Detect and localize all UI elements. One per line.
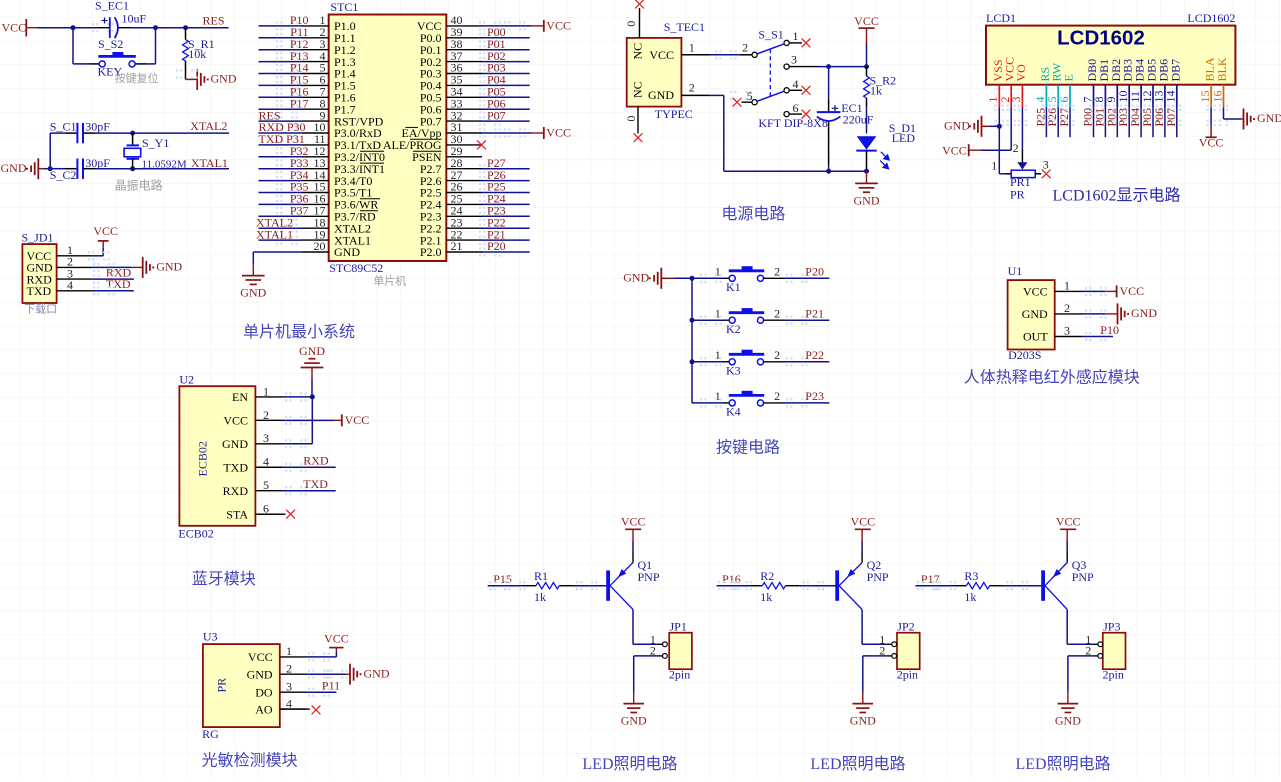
no connect X (TEC top)	[635, 0, 644, 8]
capacitor S_EC1 10uF	[95, 0, 147, 38]
svg-text:S_TEC1: S_TEC1	[664, 20, 705, 34]
svg-text:AO: AO	[255, 702, 273, 716]
IC STC1 pin 26 P2.5	[420, 180, 482, 200]
svg-text:P10: P10	[1100, 323, 1119, 337]
wire STC1 pin 5	[259, 69, 303, 78]
junction	[826, 169, 831, 174]
wire JD1 pin2 to GND	[92, 263, 143, 272]
power port GND (U2 top)	[299, 344, 325, 397]
svg-text:STC1: STC1	[330, 0, 358, 14]
power port VCC (BLA)	[1199, 135, 1224, 149]
svg-text:KFT DIP-8X8: KFT DIP-8X8	[758, 116, 827, 130]
svg-text:VCC: VCC	[324, 632, 349, 646]
IC LCD1 pin 15 BLA	[1198, 57, 1217, 126]
IC STC1 pin 21 P2.0	[420, 239, 482, 259]
svg-text:2: 2	[286, 661, 292, 675]
wire U3 pin3 / net label P11	[306, 679, 340, 697]
module U3 pin 2 GND	[247, 661, 306, 681]
svg-text:P07: P07	[487, 108, 506, 122]
wire U2 pin2 to VCC	[282, 416, 342, 425]
IC LCD1 pin 8 DB1	[1092, 59, 1111, 126]
svg-text:RXD: RXD	[303, 454, 329, 468]
svg-text:TYPEC: TYPEC	[655, 107, 693, 121]
svg-text:P20: P20	[487, 239, 506, 253]
svg-text:LED照明电路: LED照明电路	[810, 755, 905, 773]
svg-text:1: 1	[715, 265, 721, 279]
wire Q1 emitter to VCC	[632, 529, 634, 562]
svg-text:VCC: VCC	[942, 143, 967, 157]
wire LCD pin 12 / net label P05	[1140, 107, 1154, 137]
IC STC1 pin 14 P3.4/T0	[302, 168, 372, 188]
wire LCD pin 14 / net label P07	[1164, 107, 1178, 137]
power port VCC (power circuit)	[854, 14, 879, 43]
svg-text:2: 2	[774, 389, 780, 403]
wire LCD pin 6 / net label P27	[1057, 107, 1071, 137]
wire LCD pin 5 / net label P26	[1045, 107, 1059, 137]
svg-text:GND: GND	[156, 260, 182, 274]
wire VCC to S_EC1	[38, 23, 114, 32]
wire STC1 pin 13	[259, 164, 303, 173]
IC STC1 pin 23 P2.2	[420, 215, 482, 235]
svg-text:LCD1602: LCD1602	[1187, 11, 1235, 25]
IC LCD1 pin 4 RS	[1033, 67, 1052, 126]
svg-text:2pin: 2pin	[897, 667, 918, 681]
svg-text:4: 4	[286, 696, 292, 710]
S_TEC1 pin 2 GND	[681, 81, 709, 96]
svg-text:2: 2	[742, 41, 748, 55]
svg-text:RES: RES	[203, 13, 225, 27]
svg-text:XTAL2: XTAL2	[190, 119, 227, 133]
svg-text:PR: PR	[1010, 188, 1025, 202]
svg-text:P22: P22	[805, 348, 824, 362]
svg-text:电源电路: 电源电路	[721, 205, 785, 223]
svg-text:P17: P17	[921, 572, 940, 586]
IC STC1 pin 2 P1.1	[302, 25, 356, 45]
svg-text:1k: 1k	[760, 590, 772, 604]
svg-text:EN: EN	[232, 390, 248, 404]
IC STC1 pin 36 P0.3	[420, 61, 482, 81]
pushbutton K2	[690, 307, 786, 336]
module U3 RG 光敏	[202, 629, 280, 740]
svg-text:人体热释电红外感应模块: 人体热释电红外感应模块	[964, 368, 1140, 387]
svg-text:NC: NC	[631, 81, 645, 98]
wire JP1 pin2 to GND	[634, 656, 663, 704]
svg-text:VCC: VCC	[546, 18, 571, 32]
switch pin1 no connect	[789, 39, 810, 48]
module U2 pin 5 RXD	[223, 478, 282, 498]
svg-text:2: 2	[689, 81, 695, 95]
wire Q1 collector to JP1	[633, 610, 663, 645]
crystal S_Y1 11.0592M	[124, 133, 187, 170]
svg-text:BLK: BLK	[1215, 57, 1229, 81]
wire STC1 pin 23	[479, 224, 530, 233]
wire C2 to XTAL1 node	[95, 168, 133, 170]
pin name overlines	[360, 151, 384, 211]
connector JP2 2pin	[879, 619, 920, 681]
wire STC1 pin 16	[259, 200, 303, 209]
svg-text:RG: RG	[202, 727, 219, 741]
module U3 pin 1 VCC	[248, 644, 306, 664]
svg-text:GND: GND	[1055, 714, 1081, 728]
svg-text:PR: PR	[215, 678, 229, 693]
svg-text:2: 2	[774, 307, 780, 321]
connector JP1 2pin	[650, 619, 692, 681]
wire STC1 pin 9	[259, 117, 303, 126]
power port GND (Q1)	[621, 704, 647, 728]
module U2 pin 2 VCC	[223, 408, 282, 428]
wire STC1 pin 33	[479, 105, 530, 114]
junction	[997, 124, 1002, 129]
S_TEC1 top pin 0	[624, 8, 640, 38]
svg-text:S_JD1: S_JD1	[22, 230, 54, 244]
svg-text:GND: GND	[621, 714, 647, 728]
svg-text:晶振电路: 晶振电路	[115, 178, 163, 193]
wire LCD pin 10 / net label P03	[1116, 107, 1130, 137]
svg-text:6: 6	[1057, 97, 1071, 103]
svg-text:14: 14	[1164, 91, 1178, 103]
connector S_JD1 pin 1 VCC	[27, 243, 92, 263]
S_TEC1 pin 1 VCC	[681, 41, 709, 55]
IC STC1 pin 35 P0.4	[420, 73, 482, 93]
svg-text:3: 3	[286, 679, 292, 693]
svg-text:10uF: 10uF	[122, 12, 147, 26]
power port GND (Q2)	[850, 704, 876, 728]
IC STC1 pin 34 P0.5	[420, 85, 482, 105]
svg-text:K3: K3	[726, 363, 741, 377]
wire LCD pin 13 / net label P06	[1152, 107, 1166, 137]
svg-text:10k: 10k	[188, 47, 206, 61]
wire switch pin3 to VCC node	[789, 66, 866, 68]
IC STC1 pin 3 P1.2	[302, 37, 356, 57]
svg-text:1: 1	[991, 159, 997, 173]
power port VCC	[544, 125, 571, 139]
svg-text:VCC: VCC	[854, 14, 879, 28]
IC LCD1 pin 12 DB5	[1140, 59, 1159, 126]
junction	[310, 394, 315, 399]
wire STC1 pin 25	[479, 200, 530, 209]
svg-text:P11: P11	[322, 679, 340, 693]
power port GND (LCD)	[944, 116, 999, 137]
svg-text:GND: GND	[334, 245, 360, 259]
resistor S_R1 10k	[183, 28, 215, 80]
IC LCD1 pin 9 DB2	[1104, 59, 1123, 126]
IC STC1 pin 25 P2.4	[420, 192, 482, 212]
switch pin6 no connect	[789, 110, 810, 119]
svg-text:VCC: VCC	[93, 224, 118, 238]
svg-text:1k: 1k	[964, 590, 976, 604]
IC STC1 pin 17 P3.7/RD	[302, 204, 376, 224]
svg-text:XTAL1: XTAL1	[256, 227, 293, 241]
IC LCD1 pin 1 VSS	[986, 59, 1005, 126]
wire Q2 emitter to VCC	[861, 529, 863, 562]
svg-text:按键复位: 按键复位	[115, 71, 159, 85]
IC STC1 pin 9 RST/VPD	[302, 108, 384, 128]
wire K4 to net label P23	[700, 398, 829, 407]
capacitor EC1 220uF	[817, 67, 874, 172]
svg-text:E: E	[1062, 74, 1076, 81]
svg-text:GND: GND	[854, 193, 880, 207]
IC STC1 pin 38 P0.1	[420, 37, 482, 57]
IC STC1 pin 18 XTAL2	[302, 215, 371, 235]
junction	[183, 25, 188, 30]
transistor Q3 PNP	[1041, 558, 1094, 610]
wire STC1 pin 31 to VCC	[479, 128, 544, 137]
svg-text:LCD1602显示电路: LCD1602显示电路	[1053, 187, 1181, 205]
wire STC1 pin 21	[479, 247, 530, 256]
IC STC1 pin 11 P3.1/TxD	[302, 132, 381, 152]
wire LCD pin 11 / net label P04	[1128, 107, 1142, 137]
wire STC1 pin 2	[259, 33, 303, 42]
svg-text:VCC: VCC	[223, 414, 248, 428]
svg-text:GND: GND	[240, 286, 266, 300]
wire Q2 collector to JP2	[862, 610, 892, 645]
svg-text:1: 1	[715, 307, 721, 321]
svg-text:1k: 1k	[534, 590, 546, 604]
svg-text:P20: P20	[805, 265, 824, 279]
wire R1 to Q1 base	[573, 581, 607, 590]
svg-text:30pF: 30pF	[85, 120, 110, 134]
power port VCC (U1)	[1117, 284, 1145, 298]
svg-text:R2: R2	[760, 569, 774, 583]
wire U1 pin1 to VCC	[1082, 287, 1117, 296]
wire STC1 pin 37	[479, 57, 530, 66]
svg-text:P16: P16	[722, 572, 741, 586]
svg-text:U2: U2	[179, 372, 194, 386]
IC STC1 pin 39 P0.0	[420, 25, 482, 45]
connector S_JD1 pin 4 TXD	[27, 278, 92, 298]
power port VCC (LCD)	[942, 143, 969, 157]
svg-text:3: 3	[1043, 157, 1049, 171]
power port VCC	[544, 18, 571, 32]
wire Q3 emitter to VCC	[1066, 529, 1068, 562]
no connect X (U2 STA)	[255, 510, 295, 519]
power port GND (Q3)	[1055, 704, 1081, 728]
IC LCD1 pin 10 DB3	[1116, 59, 1135, 126]
S_TEC1 bottom pin 0	[624, 107, 638, 134]
junction	[864, 64, 869, 69]
wire STC1 pin 19	[259, 236, 303, 245]
svg-text:VCC: VCC	[1120, 284, 1145, 298]
wire STC1 pin 7	[259, 93, 303, 102]
svg-text:1: 1	[793, 29, 799, 43]
svg-text:GND: GND	[222, 437, 248, 451]
svg-text:VCC: VCC	[1023, 285, 1048, 299]
wire LCD pin16 BLK to GND	[1224, 107, 1244, 119]
svg-text:GND: GND	[1, 161, 27, 175]
wire LCD pin2 VCC	[969, 107, 1012, 150]
wire K1 to net label P20	[700, 274, 829, 283]
svg-text:2: 2	[774, 265, 780, 279]
IC LCD1 pin 5 RW	[1045, 62, 1064, 126]
wire K3 to net label P22	[700, 357, 829, 366]
svg-text:ECB02: ECB02	[178, 526, 213, 540]
svg-text:1: 1	[689, 41, 695, 55]
IC STC1 pin 16 P3.6/WR	[302, 192, 378, 212]
IC STC1 pin 24 P2.3	[420, 204, 482, 224]
wire U1 pin3 / net label P10	[1082, 323, 1119, 341]
capacitor S_C2 30pF	[50, 156, 111, 182]
pushbutton K4	[692, 389, 785, 418]
svg-text:K4: K4	[726, 405, 741, 419]
IC STC1 pin 40 VCC	[417, 13, 482, 33]
wire JP2 pin2 to GND	[863, 656, 892, 704]
svg-text:GND: GND	[944, 118, 970, 132]
svg-text:TXD P31: TXD P31	[259, 132, 305, 146]
junction	[864, 169, 869, 174]
junction	[153, 25, 158, 30]
svg-text:GND: GND	[1257, 111, 1281, 125]
IC STC1 pin 12 P3.2/INT0	[302, 144, 385, 164]
svg-text:OUT: OUT	[1023, 330, 1048, 344]
no connect X (TEC bottom)	[634, 133, 643, 142]
switch S_S1 KFT DIP-8X8	[742, 27, 828, 130]
power port GND (below STC1)	[242, 276, 265, 285]
module U2 pin 1 EN	[232, 384, 282, 404]
svg-text:TXD: TXD	[27, 284, 52, 298]
svg-text:16: 16	[1210, 91, 1224, 103]
wire U1 pin2 to GND	[1082, 309, 1118, 318]
IC LCD1 pin 2 VCC	[998, 57, 1017, 126]
wire TEC pin2 to ground rail	[709, 91, 867, 171]
wire S_EC1 to RES node	[131, 27, 186, 29]
IC LCD1 pin 11 DB4	[1128, 59, 1147, 126]
svg-text:ECB02: ECB02	[196, 441, 210, 476]
wire U3 pin2 to GND	[306, 670, 350, 679]
IC STC1 pin 4 P1.3	[302, 49, 356, 69]
pin name overlines right	[406, 127, 442, 151]
power port GND (U1)	[1118, 303, 1158, 324]
pushbutton K3	[690, 348, 786, 377]
svg-text:GND: GND	[623, 271, 649, 285]
IC STC1 pin 27 P2.6	[420, 168, 482, 188]
wire P16 to R2	[717, 581, 763, 590]
wire U2 pin5 / net label TXD	[282, 477, 336, 495]
module U2 pin 4 TXD	[223, 455, 282, 475]
svg-text:R1: R1	[534, 569, 548, 583]
svg-text:JP1: JP1	[670, 619, 687, 633]
svg-text:TXD: TXD	[106, 277, 131, 291]
connector S_TEC1 TYPEC	[627, 20, 705, 121]
svg-text:6: 6	[793, 101, 799, 115]
svg-text:GND: GND	[364, 666, 390, 680]
IC STC1 pin 15 P3.5/T1	[302, 180, 372, 200]
wire U3 pin1 to VCC	[306, 648, 336, 662]
IC STC1 pin 29 PSEN	[412, 144, 482, 164]
IC LCD1 pin 7 DB0	[1080, 59, 1099, 126]
power port GND (crystal)	[1, 158, 51, 179]
svg-text:STC89C52: STC89C52	[329, 261, 383, 275]
power port VCC (U2)	[342, 413, 369, 427]
svg-text:VCC: VCC	[345, 413, 370, 427]
switch pin4 no connect	[789, 86, 810, 95]
transistor Q1 PNP	[606, 558, 660, 610]
svg-text:S_C2: S_C2	[50, 168, 77, 182]
svg-text:2: 2	[1064, 301, 1070, 315]
power port GND (power circuit)	[854, 171, 880, 207]
wire crystal left bus	[50, 133, 65, 169]
svg-text:VCC: VCC	[850, 514, 875, 528]
wire STC1 pin 40 to VCC	[479, 21, 544, 30]
wire STC1 pin 39	[479, 33, 530, 42]
IC STC1 pin 13 P3.3/INT1	[302, 156, 385, 176]
wire STC1 pin 22	[479, 236, 530, 245]
wire STC1 pin20 GND	[253, 252, 302, 276]
svg-text:VCC: VCC	[649, 48, 674, 62]
svg-text:LED照明电路: LED照明电路	[582, 755, 677, 773]
svg-text:TXD: TXD	[223, 460, 248, 474]
power port VCC (JD1)	[93, 224, 118, 248]
svg-text:1k: 1k	[870, 84, 882, 98]
svg-text:GND: GND	[1131, 306, 1157, 320]
net label XTAL2	[133, 119, 229, 133]
capacitor S_C1 30pF	[50, 120, 111, 144]
svg-text:P07: P07	[1164, 108, 1178, 127]
svg-text:VCC: VCC	[2, 20, 27, 34]
power port GND (JD1)	[143, 257, 183, 278]
svg-text:LCD1: LCD1	[986, 11, 1016, 25]
wire U2 pin4 / net label RXD	[282, 454, 336, 472]
svg-text:GND: GND	[850, 714, 876, 728]
svg-text:3: 3	[1009, 97, 1023, 103]
IC LCD1 pin 14 DB7	[1164, 59, 1183, 126]
svg-text:U3: U3	[203, 629, 218, 643]
svg-text:VCC: VCC	[1199, 135, 1224, 149]
svg-text:U1: U1	[1008, 264, 1023, 278]
junction	[130, 131, 135, 136]
svg-text:2pin: 2pin	[1103, 667, 1124, 681]
IC LCD1 pin 16 BLK	[1210, 57, 1229, 126]
wire STC1 pin 11	[259, 140, 303, 149]
resistor R3 1k	[964, 569, 1003, 604]
switch S_S2 KEY	[73, 28, 156, 79]
connector S_JD1 下载口	[22, 230, 57, 303]
svg-text:DO: DO	[255, 685, 273, 699]
junction	[130, 166, 135, 171]
svg-text:20: 20	[314, 239, 326, 253]
svg-text:1: 1	[286, 644, 292, 658]
module U1 pin 3 OUT	[1023, 324, 1082, 344]
wire STC1 pin 18	[259, 224, 303, 233]
wire U2 gnd bus vertical	[282, 397, 312, 449]
power port VCC (reset circuit)	[2, 19, 39, 37]
svg-text:0: 0	[624, 21, 638, 27]
svg-text:21: 21	[451, 239, 463, 253]
svg-text:P27: P27	[1057, 108, 1071, 127]
IC STC1 pin 1 P1.0	[302, 13, 356, 33]
svg-text:按键电路: 按键电路	[716, 438, 780, 456]
svg-text:PNP: PNP	[638, 570, 660, 584]
svg-text:光敏检测模块: 光敏检测模块	[202, 751, 298, 769]
svg-text:K1: K1	[726, 280, 741, 294]
wire STC1 pin 24	[479, 212, 530, 221]
connector JP3 2pin	[1085, 619, 1125, 681]
pushbutton K1	[690, 265, 786, 294]
wire P15 to R1	[488, 581, 536, 590]
svg-text:单片机: 单片机	[373, 274, 406, 288]
IC STC1 pin 31 EA/Vpp	[402, 120, 483, 140]
svg-text:JP2: JP2	[897, 619, 914, 633]
svg-text:S_Y1: S_Y1	[142, 136, 169, 150]
svg-text:VO: VO	[1014, 64, 1028, 82]
wire JP3 pin2 to GND	[1068, 656, 1098, 704]
svg-text:GND: GND	[211, 71, 237, 85]
svg-text:PNP: PNP	[867, 570, 889, 584]
wire STC1 pin 14	[259, 176, 303, 185]
junction	[48, 166, 53, 171]
svg-text:P21: P21	[805, 307, 824, 321]
svg-text:30pF: 30pF	[85, 156, 110, 170]
power port GND (BLK)	[1244, 109, 1281, 130]
